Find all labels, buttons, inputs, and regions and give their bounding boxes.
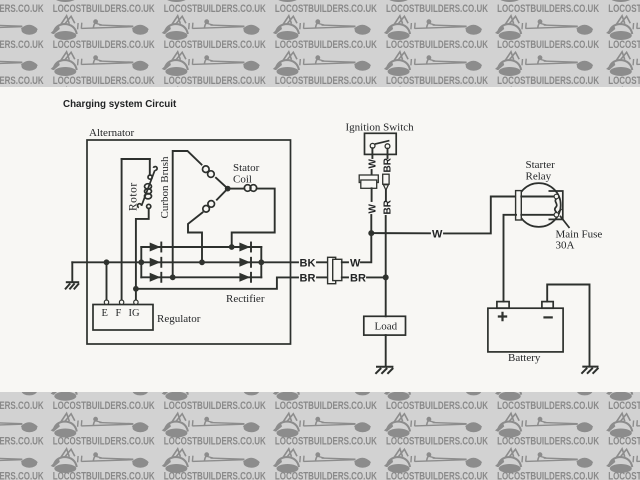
node right bus / rail (258, 259, 264, 265)
bottom rail wire (141, 276, 261, 278)
wire BK to connector (317, 261, 328, 263)
node IG junction (133, 286, 139, 292)
node stator centre (225, 186, 231, 192)
alternator box (87, 140, 291, 344)
battery box (488, 308, 563, 352)
svg-text:Stator: Stator (233, 162, 260, 174)
svg-text:Battery: Battery (508, 352, 541, 364)
relay circle (517, 183, 561, 227)
svg-text:30A: 30A (556, 240, 575, 252)
relay terminal bottom (554, 213, 559, 218)
svg-text:Starter: Starter (526, 159, 556, 171)
wire W below connector (371, 188, 373, 201)
ground battery (581, 367, 598, 374)
svg-text:F: F (116, 308, 122, 319)
diode D4 (239, 243, 251, 252)
node W junction (368, 230, 374, 236)
svg-text:BR: BR (383, 157, 394, 172)
relay terminal top (554, 194, 559, 199)
wire W to connector (371, 170, 373, 175)
connector in W line (359, 175, 378, 183)
node BR junction (383, 274, 389, 280)
battery (488, 302, 563, 352)
svg-text:BR: BR (383, 199, 394, 214)
svg-text:IG: IG (129, 308, 140, 319)
svg-text:W: W (350, 258, 361, 270)
wire connector W out (342, 261, 348, 263)
battery terminal minus cap (542, 302, 553, 309)
svg-text:BR: BR (300, 273, 316, 285)
svg-text:Load: Load (375, 321, 398, 333)
wire battery minus to ground (547, 285, 589, 367)
node left bus / rail (138, 259, 144, 265)
wire load to ground (385, 335, 387, 366)
carbon brush arrow (142, 170, 155, 206)
diode D5 (239, 258, 251, 267)
svg-text:Charging system Circuit: Charging system Circuit (63, 99, 177, 110)
svg-text:BK: BK (300, 258, 316, 270)
diode D3 (150, 273, 162, 282)
connector bullet pair (328, 257, 336, 283)
svg-text:Curbon Brush: Curbon Brush (159, 156, 171, 219)
svg-text:E: E (102, 308, 108, 319)
relay right frame (549, 191, 563, 219)
svg-text:Relay: Relay (526, 171, 552, 183)
pin F circle (119, 300, 123, 304)
middle rail wire (72, 261, 298, 263)
plus sign (498, 312, 507, 321)
wire connector BR out (342, 276, 348, 278)
main fuse element (555, 199, 557, 213)
switch contact circles (370, 143, 375, 148)
pin E circle (104, 300, 108, 304)
rectifier bridge (72, 243, 298, 282)
top rail wire (141, 246, 261, 248)
rotor R (field winding) (122, 159, 158, 302)
relay left block (516, 191, 522, 220)
wire relay to battery plus (504, 215, 517, 302)
svg-text:Ignition Switch: Ignition Switch (346, 122, 415, 134)
wire rotor bottom to IG (149, 159, 151, 175)
pin IG circle (134, 300, 138, 304)
bottom watermark band (0, 392, 640, 480)
node E line / rail (104, 259, 110, 265)
pointer main fuse (560, 216, 570, 228)
wire E terminal (106, 262, 108, 302)
relay contact wire top (521, 196, 553, 198)
wire BR mid (385, 190, 387, 201)
svg-text:Rotor: Rotor (128, 182, 140, 211)
wire BR ignition upper (387, 149, 389, 158)
wire W up to junction (361, 233, 371, 262)
wire ground stub alternator (71, 262, 73, 282)
top watermark band (0, 0, 640, 87)
stator phase 2 wire (right) (231, 188, 245, 190)
stator coil L3 (208, 201, 215, 208)
svg-text:Alternator: Alternator (89, 127, 135, 139)
stator coil assembly (173, 151, 275, 277)
ignition switch box (365, 133, 397, 154)
wire BR right to junction (367, 276, 386, 278)
wire BR to connector (317, 276, 328, 278)
relay contact wire bottom (521, 214, 553, 216)
svg-text:Rectifier: Rectifier (226, 293, 265, 305)
wire W junction to relay (371, 232, 430, 234)
svg-text:W: W (368, 204, 379, 214)
stator coil L1 (208, 171, 215, 178)
stator coil L2 (244, 185, 251, 192)
stator phase 1 wire (upper-left) (216, 178, 228, 189)
node stator1 / bottom rail (170, 274, 176, 280)
svg-text:W: W (432, 228, 443, 240)
rotor coil (148, 175, 152, 179)
stator phase 3 wire (lower-left) (217, 189, 228, 200)
right bus wire (260, 247, 262, 277)
svg-text:Regulator: Regulator (157, 313, 201, 325)
wire W to W junction (370, 215, 372, 233)
svg-text:W: W (368, 159, 379, 169)
ground alternator (65, 282, 79, 289)
connector arrow BR line (383, 185, 388, 190)
wire rotor top (122, 158, 150, 160)
ground load (375, 367, 393, 374)
load box (364, 316, 406, 335)
node stator2 / top rail (229, 244, 235, 250)
diode D2 (150, 258, 162, 267)
diode D1 (150, 243, 162, 252)
minus sign (543, 316, 552, 318)
regulator box (93, 305, 153, 331)
svg-text:Coil: Coil (233, 174, 252, 186)
left bus wire (140, 247, 142, 277)
fuse in BR line (383, 174, 389, 184)
wire rotor left / F line (121, 159, 123, 302)
starter relay (516, 183, 563, 227)
diode D6 (239, 273, 251, 282)
wire W ignition upper (371, 148, 373, 158)
battery terminal plus cap (497, 302, 509, 309)
svg-text:BR: BR (350, 273, 366, 285)
node stator3 / middle rail (199, 259, 205, 265)
wire BR down to junction and load (385, 216, 387, 316)
wire IG to BR line (136, 277, 298, 288)
switch lever (375, 141, 390, 145)
